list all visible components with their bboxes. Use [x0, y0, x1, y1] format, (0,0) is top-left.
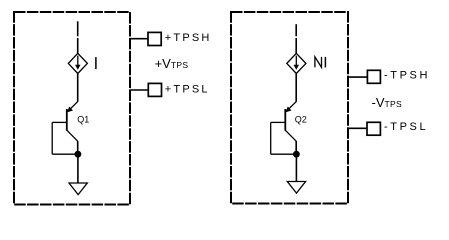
wire to ground left [77, 154, 79, 183]
transistor Q1 [67, 102, 78, 155]
svg-text:+TPSL: +TPSL [165, 84, 210, 96]
wire top stub right [295, 24, 297, 53]
svg-text:-TPSH: -TPSH [384, 70, 430, 82]
wire to +TPSL terminal [130, 89, 149, 91]
svg-text:Q2: Q2 [295, 115, 307, 125]
junction dot left [75, 151, 82, 158]
dashed box right [231, 12, 348, 204]
current source I2 [287, 53, 306, 73]
wire base loop Q1 [52, 122, 78, 154]
wire top stub left [77, 21, 79, 53]
svg-text:Q1: Q1 [77, 115, 89, 125]
dashed box left [14, 12, 130, 205]
terminal square -TPSL [367, 122, 380, 135]
current source I1 [68, 53, 87, 73]
wire diamond to Q1 emitter [77, 74, 79, 102]
value label I [95, 57, 97, 69]
terminal square -TPSH [367, 70, 380, 83]
terminal square +TPSH [148, 32, 161, 45]
wire base loop Q2 [271, 122, 297, 154]
ground left [69, 183, 87, 195]
wire to -TPSL terminal [348, 127, 367, 129]
svg-text:-TPSL: -TPSL [384, 121, 428, 133]
wire to -TPSH terminal [348, 76, 368, 78]
terminal square +TPSL [148, 83, 161, 96]
ground right [287, 182, 305, 194]
value label NI [315, 57, 326, 68]
svg-text:+TPSH: +TPSH [165, 32, 212, 44]
wire to +TPSH terminal [130, 38, 148, 40]
wire to ground right [295, 154, 297, 181]
junction dot right [293, 151, 300, 158]
transistor Q2 [285, 102, 296, 155]
wire diamond to Q2 emitter [295, 74, 297, 102]
